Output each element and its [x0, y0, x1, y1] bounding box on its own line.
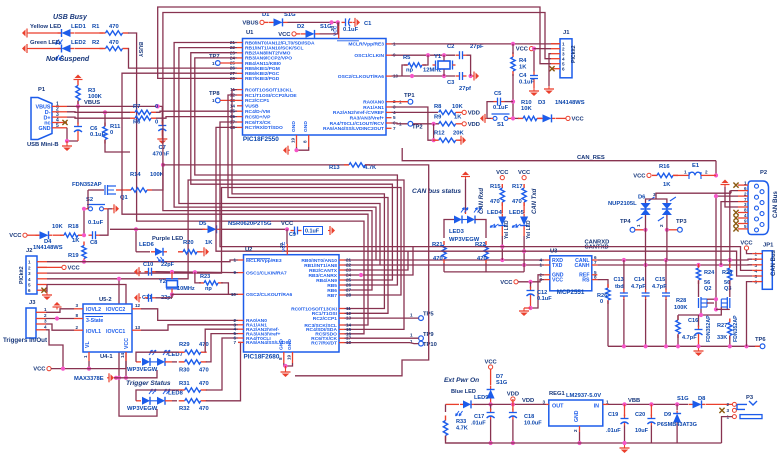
svg-text:RB5/KBI1/PGM: RB5/KBI1/PGM [245, 66, 280, 72]
svg-text:470: 470 [199, 368, 209, 374]
svg-text:WP3VEGW: WP3VEGW [127, 406, 158, 412]
svg-text:VCC: VCC [484, 360, 497, 366]
svg-text:RB4/AN11/KBI0: RB4/AN11/KBI0 [245, 61, 281, 67]
resistor R19 [83, 242, 85, 246]
resistor R18 [60, 234, 64, 236]
wire LED7 left to R29 [136, 352, 179, 362]
port arrow left LED1 [27, 32, 29, 34]
svg-text:C5: C5 [494, 91, 502, 97]
svg-text:OSC2/CLKOUT/RA6: OSC2/CLKOUT/RA6 [246, 292, 292, 298]
U3 pin 3 VCC [544, 279, 550, 281]
wire pin4 to R8 [392, 111, 439, 113]
U2 pin 11 RC0/T1OSO/T13CKI [339, 308, 345, 310]
svg-text:VBUS: VBUS [84, 100, 100, 106]
svg-text:P6SMB43AT3G: P6SMB43AT3G [657, 422, 697, 428]
svg-text:RA3/AN3/Vref+: RA3/AN3/Vref+ [350, 116, 385, 122]
LED LED9 [446, 403, 460, 405]
wire rail LED9 to REG1 [486, 403, 546, 405]
wire VBUS to C7 [161, 106, 163, 123]
svg-text:LED1: LED1 [71, 24, 87, 30]
svg-text:R5: R5 [403, 55, 411, 61]
svg-text:P2: P2 [760, 170, 767, 176]
ground J1 [548, 86, 550, 89]
svg-text:U1: U1 [246, 30, 254, 36]
net VBUS top [260, 20, 264, 24]
svg-text:RB2/AN8/INT2/VMO: RB2/AN8/INT2/VMO [245, 51, 291, 57]
wire Y1 bottom [443, 70, 445, 77]
resistor R24 [698, 265, 700, 267]
power arrow VBUS pullup [77, 80, 79, 83]
U3 pin 6 CANL [592, 259, 598, 261]
wire LED3 left [444, 220, 454, 239]
svg-text:TP8: TP8 [209, 91, 220, 97]
test point TP6 [760, 344, 765, 349]
no-connect P3 pin3 [719, 408, 724, 413]
svg-text:0.1uF: 0.1uF [537, 296, 552, 302]
svg-text:IOVCC1: IOVCC1 [106, 329, 125, 335]
capacitor C17 [490, 404, 492, 410]
svg-text:0: 0 [110, 130, 113, 136]
wire P2 pin6 [731, 191, 738, 194]
svg-text:3: 3 [744, 202, 747, 207]
svg-text:GND: GND [279, 339, 285, 350]
svg-text:4.7K: 4.7K [364, 165, 377, 171]
wire LED3 top [465, 179, 467, 210]
svg-text:6: 6 [562, 67, 565, 72]
capacitor C7 [161, 122, 163, 126]
wire C8 right up to S2 [100, 209, 109, 235]
ground U2 [285, 366, 287, 369]
svg-text:RC7/RX/DT/SDO: RC7/RX/DT/SDO [245, 125, 283, 131]
U1 pin 3 RA1/AN1 [386, 106, 392, 108]
svg-text:0: 0 [155, 104, 158, 110]
no-connect P2 pin5 [733, 226, 738, 231]
svg-text:C1: C1 [364, 21, 372, 27]
wire LED9 right [474, 403, 486, 405]
svg-text:1K: 1K [663, 182, 671, 188]
wire vertical from P2 pin6 row [729, 191, 731, 261]
pin stubs J3 [36, 311, 46, 313]
switch S1 [493, 116, 497, 120]
U1 pin 18 RC7/RX/DT/SDO [237, 126, 243, 128]
LED LED5 [523, 203, 525, 213]
svg-text:Purple LED: Purple LED [152, 236, 183, 242]
svg-text:Ext Pwr On: Ext Pwr On [444, 377, 479, 384]
svg-text:MAX3378E: MAX3378E [74, 376, 104, 382]
wire C6 to gnd rail [77, 134, 79, 142]
svg-text:470: 470 [199, 342, 209, 348]
svg-text:RC5/D+/VP: RC5/D+/VP [245, 114, 271, 120]
svg-text:C3: C3 [447, 80, 455, 86]
wire R2 down to U1 pin26 [128, 49, 237, 69]
wire D4 to R18 [53, 234, 62, 236]
svg-text:R23: R23 [200, 274, 210, 280]
wire S2 left [83, 209, 85, 235]
wire R3 to VBUS [77, 101, 79, 106]
svg-text:RS: RS [582, 277, 590, 283]
wire C11 right [156, 297, 173, 299]
wire U1 gnd [297, 147, 309, 150]
svg-text:27pf: 27pf [459, 86, 471, 92]
svg-text:R27: R27 [717, 323, 727, 329]
svg-text:VCC: VCC [633, 173, 646, 179]
wire VCC row J2-1 to U2 MCLR [47, 260, 238, 262]
svg-text:LED5: LED5 [509, 210, 525, 216]
svg-text:1: 1 [28, 260, 31, 265]
U1 pin 14 VUSB [237, 105, 243, 107]
svg-text:TP7: TP7 [209, 54, 220, 60]
ground C9 [328, 230, 330, 232]
svg-text:C19: C19 [608, 412, 618, 418]
U1 pin 7 RA5/AN4/SS/LVDINC2OUT [386, 127, 392, 129]
U3 pin 7 CANH [592, 264, 598, 266]
svg-text:RC1/T1OSI/CCP2/UOE: RC1/T1OSI/CCP2/UOE [245, 93, 297, 99]
wire node to U1 pin20 [338, 22, 340, 26]
pin stubs P2 [738, 184, 748, 186]
capacitor C9 [291, 230, 295, 232]
svg-text:Q1: Q1 [120, 195, 129, 201]
wire J2 pin3 pi to U2 RB7 [47, 188, 401, 296]
wire R27 [729, 336, 731, 346]
ground C7 [161, 136, 163, 139]
svg-text:CAN Bus: CAN Bus [772, 191, 779, 218]
svg-text:1: 1 [410, 333, 413, 338]
wire J3 pin3 [46, 324, 74, 330]
U1 pin 4 RA2/AN2/Vref-/CVREF [386, 111, 392, 113]
wire R23 right [221, 283, 238, 294]
wire TXD row U2 to U3 [380, 264, 544, 266]
svg-text:2: 2 [28, 265, 31, 270]
wire CANH row [597, 264, 752, 266]
net VDD R9 [462, 122, 466, 126]
svg-text:RC2/CCP1: RC2/CCP1 [313, 316, 337, 322]
wire J3 pin1 to U5 pin3 [46, 309, 74, 313]
wire S2 right [108, 208, 112, 210]
svg-text:3: 3 [542, 400, 545, 405]
svg-text:R20: R20 [183, 240, 194, 246]
wire U1 pin23 bundle [191, 53, 393, 280]
no-connect P2 pin9 [733, 221, 738, 226]
wire U2 RB2 CANTX [345, 251, 409, 270]
svg-text:RB3/AN9/CCP2/VPO: RB3/AN9/CCP2/VPO [245, 56, 292, 62]
capacitor C2 [456, 54, 460, 56]
power arrow P2 [724, 185, 726, 188]
svg-text:R2: R2 [92, 40, 99, 46]
svg-text:8: 8 [75, 313, 78, 318]
U2 pin 10 OSC2/CLKOUT/RA6 [238, 293, 244, 295]
svg-text:RA4/T0CLI/C1OUT/RCV: RA4/T0CLI/C1OUT/RCV [330, 121, 385, 127]
wire U5 pin1 to VCC rail [88, 361, 90, 369]
port arrow left LED2 [27, 48, 29, 50]
svg-text:33K: 33K [717, 335, 727, 341]
svg-text:TP2: TP2 [412, 125, 423, 131]
wire R22 bottom [485, 263, 487, 272]
svg-text:P3: P3 [746, 395, 754, 401]
wire J2 pin4 down branch [119, 279, 157, 416]
diode D8 [689, 403, 693, 405]
svg-text:1: 1 [410, 313, 413, 318]
capacitor C10 [145, 271, 149, 273]
svg-text:VCC: VCC [33, 367, 46, 373]
svg-text:470: 470 [512, 199, 522, 205]
ground C1 [353, 21, 355, 23]
wire P1 GND to ground [67, 128, 78, 141]
svg-text:IOVL1: IOVL1 [86, 329, 101, 335]
VCC rail bottom left [47, 367, 51, 371]
resistor R11 [104, 123, 106, 127]
svg-text:15: 15 [230, 109, 236, 114]
wire Y2 top [171, 272, 173, 279]
svg-text:VCC: VCC [278, 32, 291, 38]
svg-text:0.1uF: 0.1uF [88, 220, 104, 226]
svg-text:GND: GND [574, 410, 580, 422]
U2 pin 20 VCC [286, 244, 288, 255]
svg-text:10K: 10K [452, 104, 463, 110]
wire R33 down [446, 436, 491, 443]
capacitor C3 [456, 75, 460, 77]
wire U1 pin18 CANTXD branch [216, 127, 408, 251]
svg-text:VCC: VCC [496, 170, 509, 176]
ground C11 [139, 297, 141, 299]
wire R31 right to U2 RA4 [206, 338, 238, 390]
svg-text:VBB: VBB [628, 398, 640, 404]
svg-text:Q2: Q2 [704, 286, 711, 292]
TVS D6 right [662, 203, 672, 209]
svg-text:R9: R9 [434, 115, 442, 121]
svg-text:6: 6 [28, 288, 31, 293]
test point TP4 [630, 227, 635, 232]
svg-text:1: 1 [233, 258, 236, 263]
junction trigger common [114, 376, 118, 380]
svg-text:Triggers In/Out: Triggers In/Out [3, 337, 47, 344]
U1 pin 28 RB7/KBI3/PGD [237, 77, 243, 79]
U2 GND pins 8 19 [283, 352, 285, 363]
svg-text:LED3: LED3 [449, 229, 465, 235]
svg-text:IN: IN [594, 404, 599, 410]
svg-text:2: 2 [573, 429, 578, 432]
svg-text:1: 1 [212, 61, 215, 66]
wire Y1 top [443, 55, 445, 60]
svg-text:8: 8 [278, 357, 283, 360]
svg-text:1: 1 [44, 307, 47, 312]
transistor Q1 FDN352AP [88, 189, 104, 191]
wire C12 gnd [530, 298, 532, 309]
wire R5 left [402, 65, 407, 76]
wire R9R12 join [433, 124, 435, 140]
wire R11 top [104, 112, 106, 126]
wire CAN_RES row [402, 148, 716, 161]
U2 pin 23 RB2/CANTX [339, 269, 345, 271]
wire J1 pin5 top loop to U1 pin28 [158, 7, 551, 78]
svg-text:3: 3 [726, 408, 729, 413]
wire R21R22 bottom row [444, 271, 524, 273]
svg-text:RB0/INT0/AN12/FLT0/SDI/SDA: RB0/INT0/AN12/FLT0/SDI/SDA [245, 40, 315, 46]
svg-text:470: 470 [490, 199, 500, 205]
wire J2 pin5 row [47, 285, 126, 378]
U2 pin 13 RC2/CCP1 [339, 317, 345, 319]
svg-text:3: 3 [28, 271, 31, 276]
resistor R14 [126, 189, 131, 191]
U2 pin 12 RC1/T1OSI [339, 312, 345, 314]
wire U5 pin14 to VCC rail [125, 361, 127, 369]
ground J2 [46, 292, 48, 295]
ground C4 [533, 83, 535, 89]
wire OSC2 row [392, 75, 456, 77]
pin stubs U5 [74, 308, 83, 310]
wire VBUS junction down to Q1 row [162, 105, 164, 107]
svg-text:Trigger Status: Trigger Status [126, 380, 171, 387]
svg-text:R30: R30 [179, 368, 190, 374]
svg-text:14: 14 [120, 352, 125, 358]
svg-text:CAN_RES: CAN_RES [577, 155, 605, 161]
svg-text:REG1: REG1 [549, 391, 566, 397]
wire D- row [67, 111, 130, 114]
wire U1 pin21 bundle [174, 43, 376, 261]
net VCC R15 [500, 176, 504, 180]
svg-text:10uF: 10uF [635, 428, 649, 434]
svg-text:C10: C10 [143, 262, 153, 268]
svg-text:R32: R32 [179, 406, 190, 412]
wire D1 to C1 [288, 21, 340, 23]
switch S2 [89, 207, 93, 211]
svg-text:C2: C2 [447, 44, 454, 50]
U2 pin 26 RB5 [339, 284, 345, 286]
svg-text:1: 1 [539, 263, 542, 268]
svg-text:0.1uF: 0.1uF [305, 229, 320, 235]
U1 pin 21 RB0/INT0/AN12/FLT0/SDI/SDA [237, 42, 243, 44]
svg-text:5: 5 [744, 224, 747, 229]
svg-text:U3: U3 [550, 249, 558, 255]
svg-text:S1G: S1G [320, 24, 332, 30]
capacitor C14 [645, 265, 647, 290]
svg-text:S1G: S1G [677, 396, 689, 402]
wire VBUS row [67, 105, 162, 107]
diode D2 S1G [296, 33, 300, 35]
svg-text:R12: R12 [434, 131, 445, 137]
wire J1 pin4 top loop to bundle [163, 13, 551, 291]
resistor R12 [433, 139, 439, 141]
svg-text:4.7pF: 4.7pF [682, 335, 697, 341]
svg-text:1: 1 [684, 170, 687, 175]
svg-text:470: 470 [199, 406, 209, 412]
wire VCC to J1 pin2 [534, 48, 552, 50]
wire J3 pin2 to U5 pin8 [46, 318, 74, 320]
resistor R30 [179, 361, 185, 363]
svg-text:OUT: OUT [552, 404, 564, 410]
net VCC R17 [522, 176, 526, 180]
svg-text:C14: C14 [634, 277, 645, 283]
svg-text:VCC: VCC [124, 338, 130, 349]
svg-text:VBUS: VBUS [242, 20, 258, 26]
svg-text:4.7pF: 4.7pF [631, 284, 646, 290]
U1 pin 17 RC6/TX/CK [237, 121, 243, 123]
svg-text:Yel LED: Yel LED [526, 220, 532, 239]
U1 pin 26 RB5/KBI1/PGM [237, 67, 243, 69]
U1 pin 6 RA4/T0CLI/C1OUT/RCV [386, 122, 392, 124]
svg-text:TXD: TXD [552, 263, 563, 269]
svg-text:RA0/AN0: RA0/AN0 [363, 100, 384, 106]
wire D2 to pin20 [320, 22, 338, 34]
svg-text:C7: C7 [159, 145, 166, 151]
svg-text:RB1/INT1/AN10/SCK/SCL: RB1/INT1/AN10/SCK/SCL [245, 45, 303, 51]
svg-text:19: 19 [287, 354, 292, 360]
resistor R15 [501, 184, 503, 188]
no-connect P1 pin4 [62, 120, 67, 125]
wire Q2 Q3 gate cross [707, 298, 716, 300]
svg-text:GND: GND [39, 126, 51, 132]
capacitor C5 [494, 101, 498, 103]
ground C10 [139, 271, 141, 273]
svg-text:LED9: LED9 [474, 395, 488, 401]
svg-text:R15: R15 [490, 184, 501, 190]
wire R1 BUSY to bundle [128, 33, 364, 334]
svg-text:S2: S2 [86, 197, 93, 203]
ground R12 [459, 139, 461, 141]
svg-text:RC0/T1OSO/T13CKL: RC0/T1OSO/T13CKL [245, 87, 293, 93]
wire U5 pin12 to U2 RA0 [141, 309, 238, 321]
ground arrow MAX3378E [107, 377, 109, 379]
wire VCC to U3 pin3 [518, 280, 544, 282]
wire P2 pin3 shield [725, 187, 738, 207]
diode D5 NSR0620P2T5G [110, 228, 205, 230]
wire R18 to node [82, 234, 84, 236]
diode D4 1N4148WS [23, 233, 27, 237]
svg-text:LED4: LED4 [487, 210, 503, 216]
capacitor C20 [650, 404, 652, 416]
wire C5 box [487, 102, 494, 119]
U2 pin 7 RA5/AN4/SS/LVDIN [238, 341, 244, 343]
resistor R28 [677, 316, 679, 320]
svg-text:4: 4 [744, 213, 747, 218]
svg-text:R33: R33 [456, 419, 466, 425]
resistor R31 [179, 389, 185, 391]
svg-text:10K: 10K [521, 106, 532, 112]
wire LED8 left to R31 [136, 390, 179, 401]
wire P2 pin2 [716, 195, 738, 197]
test point TP10 [419, 341, 424, 346]
svg-text:BUSY: BUSY [137, 42, 143, 57]
wire U1 pin11 bundle [232, 90, 384, 309]
net VCC R16 [647, 173, 651, 177]
wire U1 pin17 CANRXD branch [220, 122, 413, 247]
svg-text:1: 1 [212, 98, 215, 103]
ground C12 [524, 307, 531, 309]
capacitor C6 [77, 106, 79, 124]
svg-text:D2: D2 [297, 24, 304, 30]
capacitor C18 [512, 399, 514, 410]
svg-text:J2: J2 [26, 248, 32, 254]
resistor R17 [523, 184, 525, 188]
wire REG1 gnd [579, 432, 581, 443]
wire U3 RS to R26 [597, 280, 608, 287]
wire U1 pin22 bundle [179, 48, 380, 265]
test point TP1 [408, 99, 413, 104]
svg-text:WP3VEGW: WP3VEGW [127, 367, 158, 373]
svg-text:RA5/AN4/SS/LVDINC2OUT: RA5/AN4/SS/LVDINC2OUT [323, 126, 384, 132]
svg-text:P1: P1 [38, 87, 46, 93]
svg-text:U5-2: U5-2 [99, 297, 112, 303]
svg-text:J3: J3 [29, 300, 36, 306]
svg-text:R1: R1 [92, 24, 100, 30]
U2 pin 9 OSC1/CLKIN/RA7 [238, 272, 244, 274]
net VCC U3 [514, 280, 518, 284]
svg-text:28: 28 [346, 293, 352, 298]
wire R13 row to corner [295, 165, 429, 376]
svg-text:470: 470 [109, 40, 119, 46]
svg-text:14: 14 [230, 103, 236, 108]
svg-text:Y1: Y1 [434, 54, 442, 60]
svg-text:10MHz: 10MHz [177, 286, 195, 292]
